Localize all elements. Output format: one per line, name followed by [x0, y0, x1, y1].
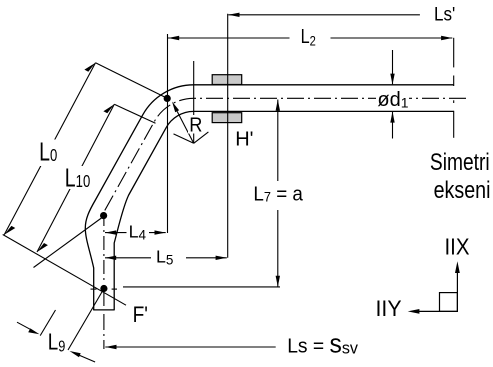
svg-text:R: R [189, 115, 202, 137]
svg-text:L9: L9 [48, 328, 66, 355]
svg-text:Simetri: Simetri [430, 148, 490, 176]
svg-text:IIY: IIY [376, 295, 402, 320]
svg-text:Ls = ssv: Ls = ssv [287, 330, 358, 359]
svg-text:L7 = a: L7 = a [253, 183, 303, 206]
svg-text:Ls': Ls' [434, 2, 455, 24]
svg-text:F': F' [133, 303, 148, 328]
svg-text:IIX: IIX [445, 233, 470, 260]
svg-text:H': H' [235, 129, 253, 151]
svg-text:ekseni: ekseni [434, 176, 491, 203]
